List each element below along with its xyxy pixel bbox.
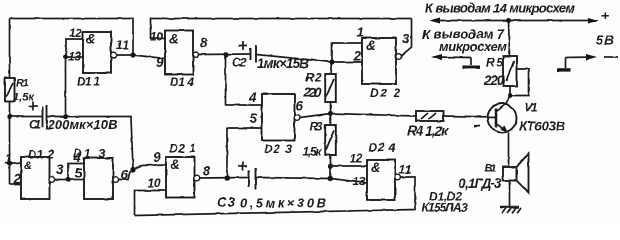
wire: D2.1 output to C3 left plate [200, 177, 249, 180]
wire: drop to D2.3 pin 4 [226, 55, 263, 106]
output bubble D1.1 [111, 52, 117, 58]
wire: top rail B from D2.2 output to D1.4 pin 10 [151, 19, 412, 39]
output bubble D2.1 [194, 175, 200, 181]
wire: D2.2 output up to rail B [401, 19, 411, 57]
wire: C3 right plate to R3 bottom and D2.4 inputs [256, 178, 331, 179]
junction C3-left / D2.3 pin5 riser [224, 175, 229, 180]
NAND gate D2.1 [166, 157, 195, 198]
wire: D2.1 pin10 bracket from bottom rail [135, 191, 167, 216]
svg-text:К выводам 14 микросхем: К выводам 14 микросхем [425, 1, 575, 16]
supply arrow line 2 right (to minus) [566, 54, 598, 68]
NAND gate D1.4 [165, 31, 193, 75]
output bubble D1.3 [113, 177, 119, 183]
C3 polarity + [238, 162, 247, 171]
wire: D2.3 pin 5 from C3-left node [227, 128, 262, 178]
junction rail / R5 [506, 18, 511, 23]
label minus dash [604, 56, 618, 58]
NAND gate D2.4 [367, 160, 395, 200]
svg-text:6: 6 [296, 99, 304, 114]
svg-text:&: & [86, 32, 96, 47]
wire: top rail A (R1 top to D1.1 output node) [10, 19, 134, 56]
svg-text:3: 3 [56, 162, 64, 177]
terminal clamp right [557, 68, 571, 71]
wire: R5 top to +5V rail [509, 21, 510, 57]
svg-text:200мк×10В: 200мк×10В [47, 117, 118, 132]
wire: C1 right plate to D1.1-inputs node and down to D2.1 pin-9 net [47, 117, 134, 169]
NAND gate D1.1 [83, 32, 111, 74]
junction D1.1 out / rail A [130, 52, 135, 57]
svg-text:микросхем: микросхем [439, 39, 507, 54]
svg-text:10: 10 [150, 30, 163, 44]
svg-text:R2: R2 [306, 71, 322, 85]
svg-text:10: 10 [148, 176, 161, 190]
wire: R3 top lead [330, 114, 332, 126]
svg-text:5: 5 [75, 166, 83, 181]
junction C1 / D1.1 inputs vertical [63, 114, 68, 119]
svg-text:3: 3 [402, 32, 410, 47]
junction at pin13 [63, 55, 68, 60]
svg-text:1,5к: 1,5к [13, 92, 35, 104]
resistor R3 [325, 125, 336, 155]
transistor V1 (NPN) [488, 104, 517, 133]
svg-text:D1 1: D1 1 [77, 75, 100, 89]
svg-text:220: 220 [483, 73, 504, 88]
capacitor C2 [251, 45, 257, 63]
junction left rail / C1 [7, 114, 12, 119]
svg-text:К155ЛА3: К155ЛА3 [422, 201, 468, 215]
wire: to D2.4 pin 13 [331, 179, 368, 184]
resistor R2 [325, 74, 336, 102]
wire: from D1.1 inputs down to C1 node [65, 57, 67, 117]
capacitor C3 [249, 168, 256, 190]
svg-text:C1: C1 [29, 118, 41, 132]
terminal clamp left [462, 66, 480, 69]
wire: D1.3 input bracket pins 4,5 [68, 164, 84, 180]
wire: R5 side loop to collector node [512, 69, 529, 96]
wire: collector up to R5 node [506, 96, 510, 104]
svg-text:&: & [170, 157, 180, 172]
svg-text:D2 2: D2 2 [370, 86, 400, 100]
svg-text:&: & [366, 38, 376, 53]
svg-text:D1 4: D1 4 [170, 75, 194, 89]
C1 polarity + [29, 102, 38, 111]
junction C3-right / R3 [328, 176, 333, 181]
svg-text:9: 9 [153, 150, 161, 165]
wire: D1.2 input stubs from left rail [10, 163, 22, 184]
wire: D1.4 output to C2 left plate [198, 53, 249, 56]
resistor R5 [504, 56, 517, 86]
output bubble D1.4 [193, 52, 199, 58]
svg-text:R1: R1 [16, 78, 29, 90]
C2 polarity + [239, 41, 248, 50]
svg-text:5В: 5В [596, 33, 614, 48]
wire: D2.3 output to R4 (tone bus) [300, 114, 416, 118]
svg-text:8: 8 [203, 164, 211, 179]
svg-text:D1 2: D1 2 [28, 148, 54, 162]
svg-text:4: 4 [73, 150, 82, 165]
junction R2 bottom / out6 [328, 111, 333, 116]
wire: D1.1 output to D1.4 pin 9 [116, 55, 165, 59]
wire: D1.1 input bracket pins 12,13 [66, 39, 83, 57]
svg-text:C3: C3 [217, 195, 236, 210]
svg-text:12: 12 [350, 152, 363, 166]
speaker B1 [503, 154, 529, 193]
resistor R1 [5, 78, 15, 102]
svg-text:&: & [371, 160, 381, 175]
svg-text:V1: V1 [525, 101, 538, 115]
svg-text:1: 1 [357, 25, 365, 40]
svg-text:0,1ГД-3: 0,1ГД-3 [459, 176, 502, 191]
svg-text:&: & [24, 160, 32, 172]
stray mark near base wire [474, 125, 480, 128]
svg-text:220: 220 [303, 85, 322, 100]
output bubble D1.2 [49, 177, 55, 183]
NAND gate D1.3 [84, 158, 113, 199]
svg-text:D2 1: D2 1 [169, 142, 196, 156]
wire: C2 right plate to D2.2 inputs / R2 top [257, 55, 333, 63]
svg-text:11: 11 [116, 38, 129, 52]
wire: speaker to ground [509, 181, 511, 207]
wire: R2 top lead to C2-right node [331, 62, 332, 74]
svg-text:8: 8 [200, 36, 208, 51]
junction R3 bottom / pin 12 wire [328, 163, 333, 168]
resistor R4 [416, 111, 444, 121]
NAND gate D1.2 [21, 157, 50, 199]
svg-text:9: 9 [156, 55, 164, 70]
svg-text:4: 4 [248, 90, 257, 105]
svg-text:&: & [169, 32, 179, 47]
junction collector / R5 [508, 93, 513, 98]
wire: left rail from top rail down to D1.2 inputs [9, 19, 11, 185]
svg-text:D2 3: D2 3 [264, 142, 292, 156]
svg-text:+: + [601, 8, 609, 24]
wire: left rail to C1 left plate [10, 116, 43, 118]
wire: R3 bottom to C3-right node [330, 155, 332, 179]
svg-text:13: 13 [353, 175, 366, 189]
capacitor C1 [43, 105, 47, 129]
wire: bottom rail (D2.4 output to D2.1 pin 10) [135, 177, 416, 216]
output bubble D2.3 [294, 115, 300, 121]
NAND gate D2.2 [362, 38, 396, 84]
ground (chassis) [500, 207, 521, 214]
svg-text:D2 4: D2 4 [369, 141, 396, 155]
wire: R4 to transistor base [444, 116, 497, 117]
wire: R2 bottom lead [330, 102, 332, 114]
supply arrow line 2 left [431, 54, 471, 65]
wire: R5 bottom to collector junction [509, 86, 511, 96]
svg-text:C2: C2 [232, 56, 246, 70]
wire: D1.3 output to D2.1 pin 9 [118, 165, 166, 180]
svg-text:0,5мк×30В: 0,5мк×30В [240, 196, 326, 211]
output bubble D2.2 [396, 54, 402, 60]
wire: emitter down to speaker [508, 133, 510, 168]
svg-text:R3: R3 [310, 120, 323, 134]
junction C2-left / D2.3 pin4 drop [223, 52, 228, 57]
NAND gate D2.3 [262, 94, 295, 141]
junction left rail / pin 1 [7, 160, 12, 165]
svg-text:R5: R5 [486, 56, 503, 70]
svg-text:B1: B1 [485, 163, 497, 175]
junction C1-net / D1.3 out net [130, 167, 135, 172]
svg-text:КТ603В: КТ603В [519, 119, 565, 134]
wire: D1.2 output to D1.3 inputs [54, 179, 68, 181]
wire: to D2.4 pin 12 [331, 165, 368, 167]
svg-text:12: 12 [69, 26, 82, 40]
svg-text:11: 11 [399, 163, 412, 177]
supply arrow line 1 (double headed) [429, 18, 599, 24]
output bubble D2.4 [395, 174, 401, 180]
svg-text:1,5к: 1,5к [303, 145, 323, 159]
wire: D2.2 input bracket pins 1,2 [332, 43, 362, 62]
junction C2-right / D2.2 inputs / R2 [329, 59, 334, 64]
svg-text:R4 1,2к: R4 1,2к [407, 124, 449, 139]
svg-text:5: 5 [250, 111, 258, 126]
junction D1.2 out / D1.3 in [65, 177, 70, 182]
